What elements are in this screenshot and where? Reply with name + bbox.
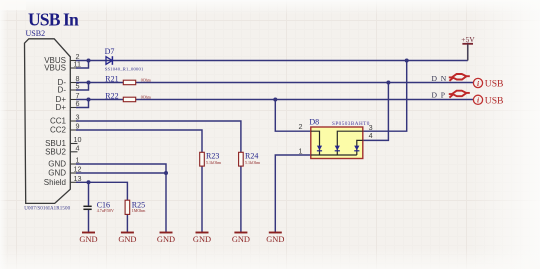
- junction D+/pin6: [87, 98, 91, 102]
- pin 7 stub: [70, 99, 78, 101]
- capacitor C16: [83, 201, 114, 213]
- wire pin12 GND: [76, 172, 166, 174]
- pin 4 stub: [70, 151, 77, 153]
- pin 11 stub: [70, 67, 78, 69]
- D8 pin numbers: [299, 122, 373, 156]
- svg-text:P: P: [441, 91, 445, 100]
- svg-text:5.1kOhm: 5.1kOhm: [206, 160, 222, 165]
- diff pair icon D_P: [449, 91, 470, 98]
- wire pin6 to D+: [76, 100, 89, 108]
- internal diode 2: [335, 146, 340, 152]
- svg-text:1MOhm: 1MOhm: [132, 208, 146, 213]
- wire R24 to GND: [240, 166, 242, 232]
- diode D7: [105, 47, 144, 71]
- wire D- horizontal: [76, 82, 473, 84]
- svg-text:N: N: [441, 74, 447, 83]
- svg-text:0Ohm: 0Ohm: [141, 78, 152, 83]
- ground 5 (R24): [232, 233, 250, 245]
- pin stubs (black): [70, 61, 78, 183]
- svg-text:VBUS: VBUS: [44, 64, 66, 73]
- pin 13 stub: [70, 181, 78, 183]
- svg-text:D-: D-: [58, 86, 67, 95]
- ground 4 (R23): [193, 233, 211, 245]
- wire VBUS to D8 pin3: [363, 61, 407, 132]
- resistor R21: [105, 74, 151, 84]
- svg-text:D: D: [432, 74, 438, 83]
- pin numbers: [74, 52, 82, 183]
- wire D+ horizontal: [76, 99, 473, 101]
- junction shield/C16: [87, 180, 91, 184]
- svg-text:USB: USB: [485, 95, 504, 106]
- TVS array D8: [299, 118, 373, 159]
- svg-text:GND: GND: [193, 235, 211, 244]
- port circle D_N: [473, 78, 503, 89]
- pin 9 stub: [70, 129, 78, 131]
- wire R23 to GND: [201, 166, 203, 232]
- svg-text:0Ohm: 0Ohm: [141, 95, 152, 100]
- junction VBUS/pin11: [87, 59, 91, 63]
- wire D8 pin1 to GND: [275, 155, 311, 233]
- resistor R22: [105, 91, 151, 101]
- pin 2 stub: [70, 60, 78, 62]
- ground 1 (C16): [79, 233, 97, 245]
- ground 6 (D8): [266, 233, 284, 245]
- wires (navy): [76, 43, 473, 233]
- svg-text:SBU2: SBU2: [45, 148, 66, 157]
- wire D+ to D8 pin2: [275, 100, 311, 132]
- svg-text:R21: R21: [105, 74, 118, 83]
- svg-text:D: D: [432, 91, 438, 100]
- svg-text:USB2: USB2: [26, 29, 46, 38]
- svg-text:SS1040_R1_00001: SS1040_R1_00001: [105, 66, 144, 71]
- pin 6 stub: [70, 107, 78, 109]
- svg-text:GND: GND: [48, 169, 66, 178]
- svg-text:D7: D7: [105, 47, 115, 56]
- ground 2 (R25): [118, 233, 136, 245]
- svg-text:SP0503BAHT0: SP0503BAHT0: [332, 121, 370, 127]
- svg-text:6: 6: [76, 99, 80, 108]
- internal diode 1: [317, 146, 322, 152]
- diff pair icon D_N: [449, 74, 470, 81]
- svg-text:USB: USB: [485, 79, 504, 90]
- pin 1 stub: [70, 163, 78, 165]
- junction D-/D8pin4: [386, 81, 390, 85]
- wire shield to R25: [76, 182, 127, 200]
- pin 8 stub: [70, 82, 78, 84]
- internal diode 3: [354, 146, 359, 152]
- junction D-/pin5: [87, 81, 91, 85]
- pin 3 stub: [70, 120, 78, 122]
- svg-text:13: 13: [74, 174, 82, 183]
- svg-text:1: 1: [76, 156, 80, 165]
- wire pin11 to VBUS: [76, 61, 89, 69]
- ground symbols: [79, 233, 284, 245]
- pin 5 stub: [70, 89, 78, 91]
- resistor R24: [239, 152, 261, 166]
- svg-text:4.7uF/50V: 4.7uF/50V: [97, 208, 114, 213]
- junction VBUS/D8pin3: [405, 59, 409, 63]
- svg-text:5.1kOhm: 5.1kOhm: [245, 160, 261, 165]
- wire D- to D8 pin4: [363, 83, 389, 141]
- svg-text:CC2: CC2: [50, 126, 67, 135]
- wire R25 to GND: [126, 214, 128, 232]
- wire shield to C16: [88, 182, 90, 205]
- pin 10 stub: [70, 143, 77, 145]
- wire +5V drop: [467, 43, 469, 61]
- junction GND pins: [164, 171, 168, 175]
- svg-text:R22: R22: [105, 91, 118, 100]
- wire VBUS horizontal: [76, 60, 468, 62]
- svg-text:CC1: CC1: [50, 117, 67, 126]
- resistor R25: [125, 200, 146, 214]
- svg-text:U007/S016IA1R1500: U007/S016IA1R1500: [24, 207, 70, 212]
- svg-text:D+: D+: [56, 103, 67, 112]
- resistor R23: [200, 152, 222, 166]
- svg-text:GND: GND: [79, 235, 97, 244]
- svg-text:GND: GND: [157, 235, 175, 244]
- svg-text:4: 4: [369, 131, 373, 140]
- svg-text:4: 4: [76, 143, 80, 152]
- net label D_N: [432, 74, 447, 83]
- svg-text:3: 3: [76, 113, 80, 122]
- pin names: [44, 56, 67, 187]
- wire pin5 to D-: [76, 83, 89, 91]
- wire C16 to GND: [88, 210, 90, 233]
- wire pin1 GND down: [76, 164, 166, 233]
- connector USB2 body: [25, 39, 71, 204]
- junction D+/D8pin2: [273, 98, 277, 102]
- svg-text:D8: D8: [309, 118, 319, 127]
- svg-text:1: 1: [299, 147, 303, 156]
- port circle D_P: [473, 95, 503, 106]
- svg-text:2: 2: [299, 122, 303, 131]
- +5V power symbol: [461, 35, 475, 61]
- svg-text:12: 12: [74, 165, 82, 174]
- pin 12 stub: [70, 172, 78, 174]
- svg-text:9: 9: [76, 122, 80, 131]
- svg-text:Shield: Shield: [44, 178, 66, 187]
- svg-text:GND: GND: [266, 235, 284, 244]
- ground 3 (pin GND): [157, 233, 175, 245]
- svg-text:GND: GND: [232, 235, 250, 244]
- wire CC1 to R24: [76, 121, 241, 152]
- net label D_P: [432, 91, 446, 100]
- svg-text:GND: GND: [48, 160, 66, 169]
- svg-text:GND: GND: [118, 235, 136, 244]
- svg-text:USB In: USB In: [28, 9, 79, 29]
- svg-text:+5V: +5V: [461, 35, 475, 44]
- wire CC2 to R23: [76, 130, 202, 152]
